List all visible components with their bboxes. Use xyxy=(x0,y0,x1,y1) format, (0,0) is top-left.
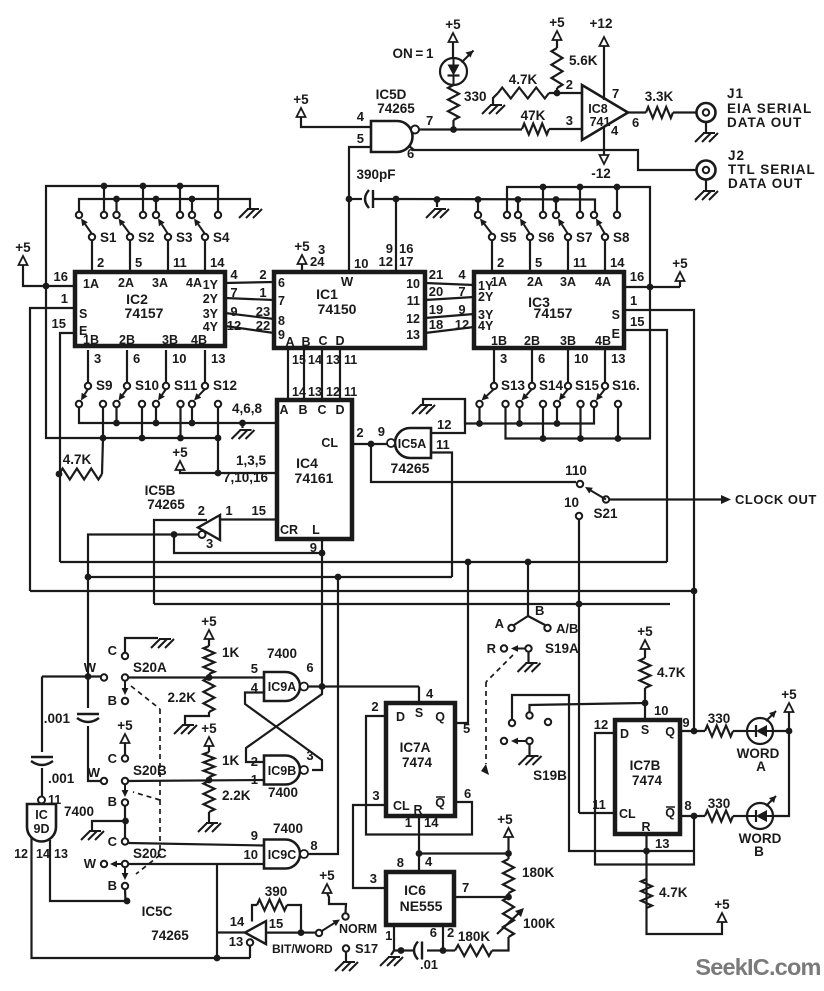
op-amp IC8 741 xyxy=(582,85,628,140)
svg-text:A: A xyxy=(495,616,505,631)
svg-text:10: 10 xyxy=(564,495,579,510)
wire 390 to pin 15 xyxy=(266,905,301,933)
LED WORD A xyxy=(747,718,773,744)
svg-text:S11: S11 xyxy=(174,378,198,393)
wire J1 to ground xyxy=(705,122,707,132)
wire contact to bus x=116.5 xyxy=(115,407,117,423)
junction +5/180K xyxy=(505,850,512,857)
wire S21 contact 10 to clock bus / IC7B CL xyxy=(578,519,580,813)
wire contact to bus x=192 xyxy=(191,407,193,423)
svg-text:EIA SERIAL: EIA SERIAL xyxy=(727,101,812,116)
svg-text:CLOCK OUT: CLOCK OUT xyxy=(735,492,817,507)
svg-text:4Y: 4Y xyxy=(478,319,494,333)
svg-text:S6: S6 xyxy=(538,230,555,245)
wire contact to bus x=618 xyxy=(617,407,619,439)
wire S3 common to IC2 pin 11 xyxy=(167,240,169,272)
bubble output IC5B xyxy=(199,531,206,538)
wire S17 to ground xyxy=(345,952,347,961)
svg-text:2: 2 xyxy=(566,77,573,92)
svg-text:S: S xyxy=(612,308,620,322)
svg-text:7: 7 xyxy=(462,880,469,895)
svg-text:74161: 74161 xyxy=(295,470,334,486)
wire +5 to IC2 pin 16 xyxy=(23,265,75,286)
svg-text:7474: 7474 xyxy=(632,773,663,788)
svg-text:74265: 74265 xyxy=(391,460,430,476)
svg-text:3: 3 xyxy=(500,351,507,366)
svg-text:7474: 7474 xyxy=(402,755,433,770)
svg-text:IC7A: IC7A xyxy=(400,740,431,755)
svg-text:TTL SERIAL: TTL SERIAL xyxy=(728,162,816,177)
LED WORD B xyxy=(747,803,773,829)
wire IC5A pin 11 input xyxy=(431,453,452,578)
wire IC3 pin 10 to S15 xyxy=(567,350,569,383)
wire IC7B Q pin 9 to select bus xyxy=(680,730,705,732)
power +5 (IC7B S pull-up) xyxy=(641,640,650,649)
svg-text:11: 11 xyxy=(344,385,357,399)
junction S bus / IC7B Q line xyxy=(691,588,698,595)
svg-text:2: 2 xyxy=(497,255,504,270)
svg-text:3: 3 xyxy=(306,748,313,763)
power +5 (NORM) xyxy=(323,884,332,893)
svg-text:3A: 3A xyxy=(152,276,168,290)
svg-text:12: 12 xyxy=(594,717,608,732)
wire bus to contact x=143 xyxy=(142,186,144,212)
svg-text:2B: 2B xyxy=(524,334,540,348)
svg-text:C: C xyxy=(108,751,118,766)
gate IC9B 7400 xyxy=(264,756,300,785)
svg-text:1Y: 1Y xyxy=(203,278,219,292)
svg-text:13: 13 xyxy=(308,385,322,399)
svg-text:3: 3 xyxy=(206,536,213,551)
junction bus x=557 xyxy=(554,420,561,427)
svg-text:8: 8 xyxy=(684,798,691,813)
svg-text:+5: +5 xyxy=(117,718,133,733)
svg-text:BIT/WORD: BIT/WORD xyxy=(272,942,333,956)
capacitor 390pF xyxy=(349,198,362,200)
svg-text:180K: 180K xyxy=(458,929,491,944)
junction 390pF right node xyxy=(393,196,400,203)
svg-text:B: B xyxy=(754,844,764,859)
capacitor .01 xyxy=(427,949,443,951)
wire IC7B Qbar pin 8 xyxy=(680,815,705,817)
switch S7 xyxy=(553,212,559,218)
svg-text:100K: 100K xyxy=(523,916,556,931)
svg-text:330: 330 xyxy=(708,796,731,811)
wire IC2 E pin 15 to 4.7K xyxy=(60,333,75,562)
wire bus to contact x=478 xyxy=(477,200,479,213)
svg-text:11: 11 xyxy=(173,255,187,270)
svg-text:CL: CL xyxy=(393,799,410,813)
svg-text:1: 1 xyxy=(259,285,266,300)
svg-text:+5: +5 xyxy=(549,15,565,30)
wire IC6 pin 1 to ground xyxy=(393,925,395,951)
power +5 (IC3 pin 16) xyxy=(676,272,685,281)
junction 1K/2.2K/IC9B.1 xyxy=(206,777,213,784)
svg-text:10: 10 xyxy=(406,277,420,291)
svg-text:390pF: 390pF xyxy=(356,167,395,182)
svg-text:2A: 2A xyxy=(527,275,543,289)
junction E net / 4.7K xyxy=(56,471,63,478)
svg-text:B: B xyxy=(535,603,544,618)
svg-text:13: 13 xyxy=(611,351,625,366)
svg-text:J1: J1 xyxy=(727,86,744,101)
wire IC5C pin 13 to bit line xyxy=(249,946,251,959)
wire S19A to ground xyxy=(527,652,529,663)
svg-text:2: 2 xyxy=(447,925,454,940)
svg-text:9: 9 xyxy=(378,424,385,439)
svg-text:5: 5 xyxy=(463,721,470,736)
svg-text:18: 18 xyxy=(429,317,443,332)
resistor 330 (LED) xyxy=(448,85,459,120)
wire IC1 C to IC4 xyxy=(321,348,323,400)
wire contact to +5 bus x=218 xyxy=(217,407,219,438)
junction on +5 bus x=180 xyxy=(177,183,184,190)
svg-text:+12: +12 xyxy=(590,16,613,31)
capacitor .001 (upper) xyxy=(77,713,99,715)
wire 2.2K to ground xyxy=(185,712,209,724)
svg-text:2.2K: 2.2K xyxy=(222,788,251,803)
bus W-node S5-S8 lower contacts xyxy=(396,199,595,212)
svg-text:14: 14 xyxy=(36,847,50,861)
junction LED A node xyxy=(786,728,793,735)
junction 390pF left node xyxy=(346,196,353,203)
wire 4.7K to +5 bus xyxy=(102,438,103,474)
bus +5 S9-S12 lower xyxy=(46,286,218,438)
svg-text:D: D xyxy=(335,403,344,417)
junction W wire xyxy=(85,673,92,680)
ground (2.2K lower) xyxy=(206,822,218,824)
gate IC9A 7400 xyxy=(264,672,300,701)
svg-text:19: 19 xyxy=(429,302,443,317)
svg-text:IC5B: IC5B xyxy=(145,483,176,498)
svg-text:4: 4 xyxy=(611,123,619,138)
svg-text:22: 22 xyxy=(256,318,270,333)
svg-text:R: R xyxy=(641,820,650,834)
svg-text:12: 12 xyxy=(437,417,451,432)
svg-text:2: 2 xyxy=(198,503,205,518)
resistor 1K lower xyxy=(204,752,215,777)
svg-text:B: B xyxy=(298,403,307,417)
wire IC7B D pin 12 loop xyxy=(595,733,694,865)
bus +5 S13-S16 lower xyxy=(506,287,651,439)
wire +12 to IC8 top xyxy=(603,46,605,100)
junction R node xyxy=(643,848,650,855)
svg-text:S17: S17 xyxy=(355,941,378,956)
svg-text:9: 9 xyxy=(278,328,285,342)
switch S8 xyxy=(591,212,597,218)
wire S5 common to IC3 pin 2 xyxy=(491,240,493,272)
junction pins 6,2 xyxy=(440,947,447,954)
svg-text:6: 6 xyxy=(464,786,471,801)
wire 1K to node xyxy=(208,674,210,678)
svg-text:Q: Q xyxy=(665,806,675,820)
bus E-select (IC2.E to IC3.E) xyxy=(60,561,667,563)
wire IC7A R pin 1 to NE555 pins 8,4 xyxy=(418,816,420,872)
wire IC6 pins 6,2 xyxy=(442,925,444,951)
resistor 4.7K (S pull) xyxy=(640,658,651,688)
wire +5 to IC5D pin 4 xyxy=(301,117,371,127)
wire IC2 pin 10 to S11 xyxy=(165,350,167,383)
svg-text:DATA OUT: DATA OUT xyxy=(728,176,803,191)
contact S17 xyxy=(343,945,349,951)
resistor 180K lower xyxy=(455,945,492,956)
svg-text:A/B: A/B xyxy=(556,621,578,636)
wire +5 to LED anode xyxy=(452,42,454,58)
wire IC9A out to IC4 L node xyxy=(321,553,323,687)
svg-text:IC4: IC4 xyxy=(296,455,318,471)
wire LED A to +5 xyxy=(773,712,789,731)
svg-text:16: 16 xyxy=(54,269,68,284)
switch S17 NORM xyxy=(301,931,316,933)
ground (S1-S4 bus) xyxy=(247,208,259,210)
svg-text:S13: S13 xyxy=(501,378,526,393)
svg-text:S19A: S19A xyxy=(545,641,579,656)
svg-text:3B: 3B xyxy=(162,333,178,347)
svg-text:S20C: S20C xyxy=(133,846,167,861)
wire bus to contact x=543 xyxy=(542,187,544,212)
wire +5 to 1K xyxy=(208,639,210,646)
svg-text:14: 14 xyxy=(230,914,245,929)
junction S20C B node xyxy=(124,898,131,905)
svg-text:Q: Q xyxy=(435,796,445,810)
wire 4.7K to +5 xyxy=(647,908,723,934)
junction pin16/+5 bus xyxy=(647,284,654,291)
IC IC3 74157 xyxy=(474,272,624,348)
junction +5 / S1-S4 bus xyxy=(43,283,50,290)
resistor 330 (WORD A) xyxy=(705,726,733,737)
svg-text:2: 2 xyxy=(356,425,363,440)
svg-text:12: 12 xyxy=(406,312,420,326)
svg-text:B: B xyxy=(108,693,117,708)
svg-text:S: S xyxy=(415,706,423,720)
junction bus x=192 xyxy=(189,420,196,427)
svg-text:9: 9 xyxy=(251,828,258,843)
bus ground S9-S12 (IC4 pins 4,6,8) xyxy=(79,407,277,423)
ground (2.2K upper) xyxy=(182,724,194,726)
wire IC8 output to 3.3K xyxy=(628,111,646,113)
junction 1K/2.2K/IC9A.5 xyxy=(206,674,213,681)
bus S-select (IC2.S to IC7B Q) xyxy=(30,590,694,592)
svg-text:74265: 74265 xyxy=(377,101,415,116)
svg-text:C: C xyxy=(317,403,326,417)
wire IC4 CR pin 15 to IC5B xyxy=(220,518,277,520)
svg-text:4: 4 xyxy=(230,267,238,282)
wire bus to contact x=156 xyxy=(155,199,157,212)
svg-text:3A: 3A xyxy=(560,275,576,289)
svg-text:2.2K: 2.2K xyxy=(167,690,196,705)
svg-text:4A: 4A xyxy=(186,276,202,290)
svg-text:12: 12 xyxy=(455,317,469,332)
svg-text:S9: S9 xyxy=(96,378,113,393)
resistor 5.6K xyxy=(552,48,563,88)
svg-text:1: 1 xyxy=(630,293,637,308)
svg-text:5.6K: 5.6K xyxy=(569,53,598,68)
svg-text:14: 14 xyxy=(610,255,625,270)
wire contact to +5 bus x=103 xyxy=(102,407,104,438)
gang dashes S19A-S19B xyxy=(486,655,513,682)
wire IC1 pins 9,12 (16,17) node xyxy=(395,199,397,272)
gate IC5D 74265 xyxy=(371,121,412,152)
ground (J1) xyxy=(703,132,715,134)
junction bus x=618 xyxy=(615,435,622,442)
svg-text:6: 6 xyxy=(278,276,285,290)
ground (S19A) xyxy=(526,662,538,664)
svg-text:5: 5 xyxy=(357,131,364,146)
svg-text:2B: 2B xyxy=(119,333,135,347)
ground (S20A C) xyxy=(159,638,171,640)
svg-text:S15: S15 xyxy=(575,378,600,393)
svg-text:IC5D: IC5D xyxy=(376,87,407,102)
wire S20B common to IC9B pin 1 xyxy=(128,780,264,781)
svg-text:W: W xyxy=(341,274,354,289)
svg-text:C: C xyxy=(108,643,118,658)
wire S1 common to IC2 pin 2 xyxy=(91,240,93,272)
wire .001 to IC9D output xyxy=(41,768,43,797)
svg-text:S1: S1 xyxy=(100,230,117,245)
svg-text:1A: 1A xyxy=(83,277,99,291)
bus ground S13-S16 to IC5A pin 12 xyxy=(465,399,594,424)
svg-text:1,3,5: 1,3,5 xyxy=(236,453,267,468)
power +5 to IC1 pin 24 xyxy=(298,255,307,264)
wire S7 common to IC3 pin 11 xyxy=(567,240,569,272)
wire IC1 pin 10 to IC5D/390pF node xyxy=(348,199,350,272)
wire IC1 A to IC4 xyxy=(287,348,289,400)
svg-text:S7: S7 xyxy=(576,230,593,245)
svg-text:IC1: IC1 xyxy=(316,286,338,302)
wire Q to S bus xyxy=(693,591,695,731)
switch S4 xyxy=(189,212,195,218)
svg-text:7400: 7400 xyxy=(267,646,297,661)
bus +5 to S1-S4 upper contacts xyxy=(46,186,218,286)
wire 180K to pins 6,2 xyxy=(443,949,455,951)
svg-text:7400: 7400 xyxy=(273,821,303,836)
A/B select xyxy=(527,562,529,616)
junction B/ground xyxy=(122,818,129,825)
svg-text:S4: S4 xyxy=(213,230,230,245)
wire S19B to ground xyxy=(528,745,530,756)
bubble output IC9D xyxy=(38,797,45,804)
svg-text:4B: 4B xyxy=(595,334,611,348)
svg-text:S21: S21 xyxy=(593,506,618,521)
IC IC2 74157 xyxy=(75,272,225,346)
svg-text:7: 7 xyxy=(458,284,465,299)
svg-text:S5: S5 xyxy=(500,230,517,245)
junction bus x=156 xyxy=(153,420,160,427)
svg-text:6: 6 xyxy=(430,925,437,940)
svg-text:7400: 7400 xyxy=(268,785,298,800)
gang dashes S20A-S20C xyxy=(131,686,160,709)
wire contact to bus x=543 xyxy=(542,407,544,439)
svg-text:6: 6 xyxy=(632,115,639,130)
resistor 2.2K lower xyxy=(204,781,215,812)
junction pin15/NORM xyxy=(298,929,305,936)
svg-text:J2: J2 xyxy=(728,148,745,163)
wire S8 common to IC3 pin 14 xyxy=(604,240,606,272)
ground (S19B) xyxy=(527,755,539,757)
svg-text:6: 6 xyxy=(538,351,545,366)
svg-text:S: S xyxy=(641,723,649,737)
switch S19B xyxy=(509,720,515,726)
svg-text:11: 11 xyxy=(407,294,420,308)
svg-text:7,10,16: 7,10,16 xyxy=(223,470,269,485)
wire +5 to 5.6K xyxy=(556,40,558,48)
svg-text:8: 8 xyxy=(310,838,317,853)
wire +5 arrow stem xyxy=(679,281,681,287)
resistor 390 feedback xyxy=(252,905,257,922)
svg-text:S12: S12 xyxy=(213,378,237,393)
gate IC9C 7400 xyxy=(264,840,300,869)
junction Q node xyxy=(691,728,698,735)
svg-text:S10: S10 xyxy=(135,378,159,393)
IC IC4 74161 xyxy=(277,400,352,539)
wire S21 common to CLOCK OUT xyxy=(609,498,723,500)
svg-text:3: 3 xyxy=(566,113,573,128)
wire J2 to ground xyxy=(705,180,707,191)
svg-text:17: 17 xyxy=(399,254,413,269)
wire bus to contact x=518 xyxy=(517,200,519,213)
wire to IC8 pin 2 xyxy=(549,92,582,94)
svg-text:12: 12 xyxy=(379,254,393,269)
junction R / +5 node xyxy=(416,850,423,857)
resistor 330 (WORD B) xyxy=(705,811,733,822)
wire IC3 S pin 1 select xyxy=(624,310,694,591)
svg-text:C: C xyxy=(318,334,327,348)
junction bus x=519.5 xyxy=(516,420,523,427)
svg-text:14: 14 xyxy=(210,255,225,270)
wire +5 to IC1 pin 24 xyxy=(301,264,303,272)
junction +5 bus x=142 xyxy=(139,435,146,442)
svg-text:1: 1 xyxy=(251,772,258,787)
wire IC6 pin 7 to 180K/100K node xyxy=(454,896,509,898)
wire IC1 to IC3 3Y xyxy=(425,314,474,318)
junction on +5 bus x=143 xyxy=(140,183,147,190)
wire S19B contact to IC7B S pull-up xyxy=(530,703,646,712)
svg-text:A: A xyxy=(756,759,766,774)
junction on gnd bus x=156 xyxy=(153,196,160,203)
svg-text:D: D xyxy=(396,710,405,724)
svg-text:74265: 74265 xyxy=(147,497,185,512)
svg-text:2: 2 xyxy=(371,699,378,714)
junction on bus x=478 xyxy=(475,196,482,203)
wire S6 common to IC3 pin 5 xyxy=(529,240,531,272)
svg-text:B: B xyxy=(108,794,117,809)
wire W vertical (IC5B output to S20 switches) xyxy=(87,536,89,708)
wire bus to contact x=104 xyxy=(103,186,105,212)
lever to A/B xyxy=(528,616,545,625)
svg-text:2Y: 2Y xyxy=(203,292,219,306)
svg-text:IC9A: IC9A xyxy=(268,680,296,694)
svg-text:1B: 1B xyxy=(491,334,507,348)
svg-text:4B: 4B xyxy=(191,333,207,347)
svg-text:4.7K: 4.7K xyxy=(509,72,538,87)
power +5 (1K upper) xyxy=(205,630,214,639)
wire IC7B R pin 13 to S19B / 4.7K xyxy=(645,834,647,908)
svg-text:+5: +5 xyxy=(172,445,188,460)
svg-text:S20A: S20A xyxy=(133,660,167,675)
svg-text:15: 15 xyxy=(630,314,644,329)
wire +5 to NORM contact xyxy=(327,893,346,913)
svg-text:10: 10 xyxy=(354,256,368,271)
wire 2.2K to ground xyxy=(208,812,210,822)
svg-text:+5: +5 xyxy=(497,812,513,827)
wire bus to contact x=556 xyxy=(555,200,557,213)
svg-text:5: 5 xyxy=(251,661,258,676)
svg-text:74150: 74150 xyxy=(318,301,357,317)
svg-text:12: 12 xyxy=(326,385,340,399)
wire IC1 D to IC4 xyxy=(339,348,341,400)
svg-text:4.7K: 4.7K xyxy=(659,885,688,900)
svg-text:12: 12 xyxy=(227,318,241,333)
